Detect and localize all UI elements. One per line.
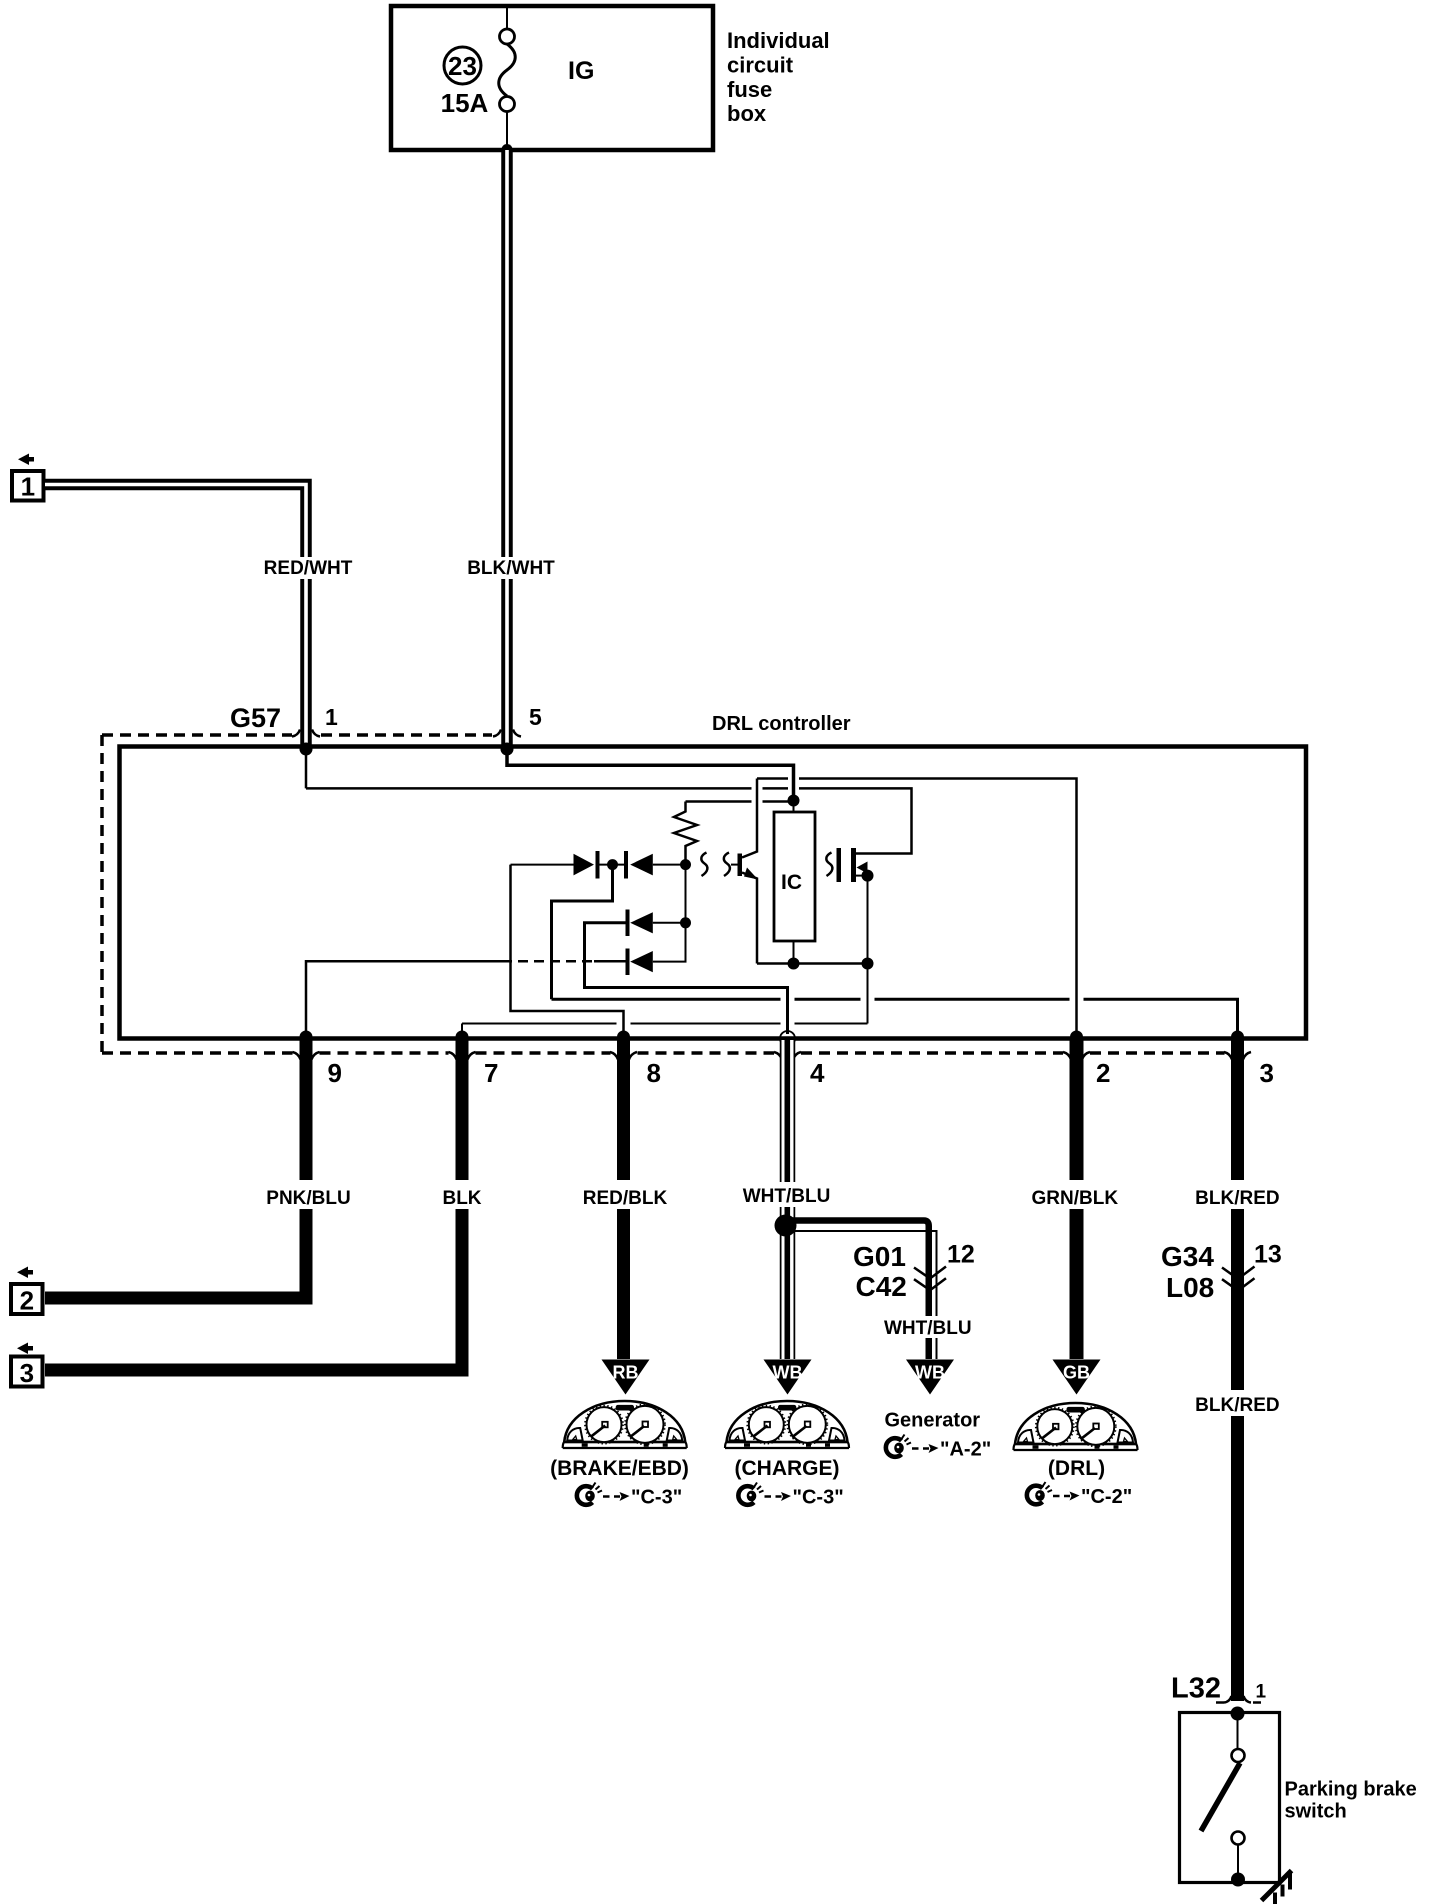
pin 3 node dot (1231, 1031, 1244, 1044)
node: MOSFET source dot (862, 870, 874, 882)
svg-text:12: 12 (947, 1241, 975, 1269)
diode D1 (anode from pin 8 riser, pointing right) (511, 864, 574, 866)
svg-text:(CHARGE): (CHARGE) (735, 1457, 840, 1480)
pin 5 pass-through bracket (493, 730, 501, 737)
node: IC bottom rail dot (788, 958, 800, 970)
svg-text:G34: G34 (1161, 1241, 1214, 1272)
instrument cluster icon (DRL) (1014, 1403, 1138, 1450)
connector 3 arrow (17, 1343, 33, 1355)
svg-text:1: 1 (325, 704, 338, 730)
instrument cluster icon (CHARGE) (725, 1401, 849, 1448)
svg-text:fuse: fuse (727, 77, 772, 102)
svg-text:G57: G57 (230, 703, 281, 733)
wire RED/WHT (connector 1 to DRL controller pin 1) (45, 485, 306, 747)
wire IC bottom to ground rail (793, 941, 795, 964)
wire D4 right lead up to D3 junction (653, 923, 686, 962)
wire RED/BLK (pin 8 to cluster arrow) (617, 1040, 630, 1359)
svg-text:3: 3 (1260, 1058, 1274, 1088)
squiggle connection mark 2 (724, 853, 730, 877)
svg-text:DRL controller: DRL controller (712, 713, 851, 735)
transistor Q1 base lead (731, 864, 738, 866)
pin 9 node dot (300, 1031, 313, 1044)
svg-text:WB: WB (915, 1363, 945, 1383)
see-reference symbol -> C-3 (BRAKE/EBD) (577, 1483, 682, 1509)
instrument cluster icon (BRAKE/EBD) (563, 1401, 687, 1448)
wire BLK/WHT (fuse box to DRL controller pin 5) (501, 150, 513, 746)
svg-text:15A: 15A (441, 88, 489, 118)
MOSFET source lead with arrow (856, 875, 868, 877)
svg-text:(BRAKE/EBD): (BRAKE/EBD) (550, 1457, 689, 1480)
pin 2 pass-through bracket (1063, 1052, 1071, 1060)
svg-text:3: 3 (20, 1358, 34, 1388)
svg-text:23: 23 (448, 51, 477, 81)
svg-text:circuit: circuit (727, 53, 794, 78)
wire dot to IC top (793, 801, 795, 813)
svg-text:2: 2 (1096, 1058, 1110, 1088)
wire WHT/BLU branch to generator (striped) (792, 1221, 929, 1360)
op-amp/IC box U1 (774, 812, 815, 941)
svg-text:switch: switch (1285, 1801, 1347, 1823)
wire resistor junction to D3 junction (685, 865, 687, 923)
svg-text:2: 2 (20, 1286, 34, 1316)
node: resistor bottom junction dot (680, 859, 691, 870)
svg-text:8: 8 (647, 1058, 661, 1088)
see-reference symbol -> C-2 (DRL) (1027, 1482, 1132, 1508)
svg-text:5: 5 (529, 704, 542, 730)
see-reference symbol -> C-3 (CHARGE) (738, 1483, 843, 1509)
connector G01/C42 chevron symbol (914, 1267, 946, 1290)
wire WHT/BLU (pin 4 down, striped) (780, 1040, 796, 1359)
L32 pass-through bracket (1216, 1701, 1261, 1704)
pin 9 pass-through bracket (293, 1052, 301, 1060)
switch upper contact circle (1232, 1749, 1245, 1762)
svg-text:(DRL): (DRL) (1048, 1457, 1105, 1480)
svg-text:WB: WB (773, 1363, 803, 1383)
svg-text:BLK/RED: BLK/RED (1195, 1188, 1279, 1209)
parking brake switch box (1180, 1713, 1280, 1883)
pin 4 pass-through bracket (774, 1052, 782, 1060)
transistor Q1 emitter with arrow (742, 873, 757, 964)
connector 1 arrow (18, 454, 34, 466)
wire pin 7 line (with crossover gaps) (462, 1024, 868, 1038)
MOSFET squiggle connection mark (826, 853, 832, 877)
svg-text:GRN/BLK: GRN/BLK (1032, 1188, 1119, 1209)
wire BLK (pin 7 to connector 3) (45, 1040, 462, 1370)
wire destination arrow WB (to generator) (906, 1360, 954, 1395)
svg-text:Parking brake: Parking brake (1285, 1779, 1417, 1801)
node: IC supply junction dot (788, 795, 800, 807)
svg-text:WHT/BLU: WHT/BLU (743, 1186, 831, 1207)
pin 7 node dot (456, 1031, 469, 1044)
Individual circuit fuse box outline (391, 6, 713, 150)
svg-text:G01: G01 (853, 1241, 906, 1272)
diode D4 (pointing left) (626, 949, 630, 976)
wire D1/D2 junction to pin 3 (with crossover gaps) (552, 865, 1238, 1037)
pin 1 pass-through bracket (292, 730, 300, 737)
svg-text:13: 13 (1254, 1241, 1282, 1269)
svg-text:"C-3": "C-3" (631, 1487, 682, 1509)
svg-text:1: 1 (1256, 1682, 1267, 1703)
transistor Q1 collector (742, 779, 757, 858)
wire destination arrow RB (to BRAKE/EBD lamp) (602, 1360, 650, 1395)
wire destination arrow GB (to DRL lamp) (1053, 1360, 1101, 1395)
node: WHT/BLU branch junction dot (775, 1215, 797, 1237)
svg-text:1: 1 (21, 472, 35, 502)
svg-text:"C-3": "C-3" (793, 1487, 844, 1509)
svg-text:IC: IC (781, 871, 802, 894)
pin 8 pass-through bracket (610, 1052, 618, 1060)
transistor Q1 base bar (738, 854, 743, 877)
svg-text:"C-2": "C-2" (1081, 1486, 1132, 1508)
wire pin 9 to D4 (solid then dashed through crossings) (306, 961, 502, 1037)
wire from pin 5 to IC supply node (507, 751, 794, 795)
MOSFET gate bar (837, 848, 842, 882)
svg-text:Generator: Generator (885, 1410, 981, 1432)
svg-text:RED/BLK: RED/BLK (583, 1188, 668, 1209)
wire resistor top to IC supply node (with crossover gap) (686, 800, 791, 803)
svg-text:Individual: Individual (727, 28, 830, 53)
pin 7 pass-through bracket (449, 1052, 457, 1060)
svg-text:PNK/BLU: PNK/BLU (266, 1188, 350, 1209)
wire GRN/BLK (pin 2 to DRL arrow) (1070, 1040, 1084, 1359)
pin 1 node dot (300, 743, 313, 756)
switch lower contact circle (1232, 1832, 1245, 1845)
connector 1 box (12, 471, 44, 501)
svg-text:L32: L32 (1171, 1673, 1221, 1705)
svg-text:"A-2": "A-2" (940, 1439, 991, 1461)
node: switch ground dot (1231, 1873, 1245, 1887)
MOSFET channel bar (851, 848, 856, 882)
wire PNK/BLU (pin 9 to connector 2) (45, 1040, 306, 1298)
connector 2 arrow (17, 1267, 33, 1279)
node: D3/D4 junction dot (680, 917, 691, 928)
node: D1/D2 junction dot (600, 864, 625, 866)
pin 8 node dot (617, 1031, 630, 1044)
svg-text:box: box (727, 101, 767, 126)
svg-text:L08: L08 (1166, 1272, 1214, 1303)
svg-text:C42: C42 (856, 1271, 907, 1302)
wire D1 anode to pin 8 (511, 865, 624, 1037)
node: MOSFET source rail dot (862, 958, 874, 970)
wire internal bottom rail (757, 962, 868, 965)
connector G34/L08 chevron symbol (1222, 1267, 1255, 1290)
svg-text:RED/WHT: RED/WHT (264, 558, 353, 579)
svg-text:7: 7 (484, 1058, 498, 1088)
wire MOSFET source down to rail and pin7 line (867, 876, 869, 1024)
wire from pin 1 to MOSFET drain loop (with crossover gaps) (306, 751, 912, 854)
svg-text:IG: IG (568, 57, 594, 85)
svg-text:9: 9 (328, 1058, 342, 1088)
svg-text:BLK/RED: BLK/RED (1195, 1395, 1279, 1416)
connector 3 box (11, 1357, 43, 1387)
diode D2 (pointing left) (624, 851, 628, 879)
svg-text:4: 4 (810, 1058, 825, 1088)
fuse symbol (two circles + wavy element) (506, 8, 508, 29)
pin 5 node dot (501, 743, 514, 756)
DRL controller box (120, 747, 1307, 1039)
svg-text:RB: RB (613, 1363, 639, 1383)
switch wire to ground terminal (1237, 1845, 1239, 1880)
switch lever (1201, 1763, 1240, 1831)
pin 4 pass-through oval (780, 1031, 795, 1046)
pin 2 node dot (1070, 1031, 1083, 1044)
diode D3 (pointing left) (626, 910, 630, 937)
wire label WHT/BLU (branch) (890, 1316, 966, 1338)
fuse 23 circle symbol (444, 47, 481, 84)
squiggle connection mark 1 (701, 853, 707, 877)
wire BLK/RED (pin 3 to parking brake switch) (1231, 1040, 1244, 1701)
wire collector to pin 2 (with crossover gap) (757, 779, 1077, 1038)
pin 3 pass-through bracket (1224, 1052, 1232, 1060)
svg-text:WHT/BLU: WHT/BLU (884, 1318, 972, 1339)
svg-text:GB: GB (1063, 1363, 1090, 1383)
wire D3 to pin 4 (585, 923, 788, 1034)
connector 2 box (11, 1284, 43, 1314)
see-reference symbol -> A-2 (Generator) (886, 1435, 991, 1461)
G57 dashed boundary top edge (102, 733, 292, 737)
ground symbol (chassis ground) (1262, 1871, 1292, 1901)
svg-text:BLK/WHT: BLK/WHT (467, 558, 555, 579)
G57 dashed boundary bottom edge (102, 1051, 293, 1055)
wire destination arrow WB (to CHARGE lamp) (764, 1360, 812, 1395)
resistor R (vertical zigzag) (674, 802, 697, 865)
G57 dashed boundary left edge (100, 735, 104, 1053)
switch wire to upper contact (1237, 1714, 1239, 1750)
node: parking brake switch terminal dot (1231, 1707, 1245, 1721)
svg-text:BLK: BLK (442, 1188, 481, 1209)
